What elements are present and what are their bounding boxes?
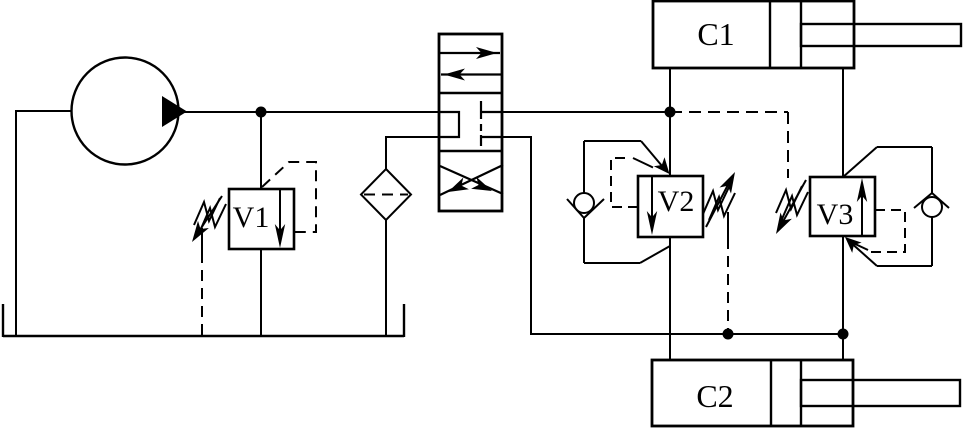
spring V3 (adjustable)	[776, 186, 802, 213]
svg-text:C2: C2	[696, 378, 733, 414]
pilot line V1 (dashed)	[262, 162, 316, 232]
svg-text:V2: V2	[658, 185, 695, 218]
DV1 centre position: blocked A/B ports	[480, 101, 482, 119]
wire DV1 port B to bottom rail	[502, 137, 843, 334]
wire C1 cap port to node A	[669, 68, 671, 112]
filter F1	[361, 169, 411, 220]
DV1 centre position: P-T bracket	[439, 112, 459, 137]
DV1 top position: flow arrow B-T	[441, 73, 502, 75]
counterbalance valve V2	[638, 176, 703, 237]
relief valve V1	[229, 189, 294, 249]
wire V1 outlet to tank	[260, 249, 262, 336]
bypass line around V3 (check path)	[843, 147, 877, 177]
node A (C1 cap line junction)	[665, 107, 676, 118]
wire pump discharge	[180, 111, 440, 113]
wire V3 to C2 rod port	[842, 236, 844, 360]
directional valve DV1 body	[439, 34, 502, 211]
wire V2 to C2 cap port	[669, 237, 671, 360]
pilot line V2 to bottom rail (dashed)	[727, 212, 729, 238]
tank T1	[3, 335, 404, 337]
svg-text:V3: V3	[817, 198, 854, 231]
node B on bottom rail (V2 pilot tap)	[723, 329, 734, 340]
svg-text:C1: C1	[697, 16, 734, 52]
wire filter to tank	[385, 220, 387, 336]
bypass line around V2 (check path)	[583, 141, 585, 193]
node C on bottom rail (C2 rod line)	[838, 329, 849, 340]
wire C1 rod port to V3	[842, 68, 844, 177]
pilot line to V3 (dashed)	[670, 111, 788, 113]
pilot sense line V2 (dashed loop)	[611, 158, 638, 207]
wire DV1 port A to node A	[502, 111, 670, 113]
wire V1 drain (dashed) to tank	[201, 228, 203, 252]
check valve CV3	[922, 197, 942, 217]
counterbalance valve V3	[810, 177, 875, 236]
wire pump suction to tank	[16, 111, 71, 336]
pump P1	[72, 58, 179, 165]
DV1 top position: flow arrow P-A	[439, 52, 500, 54]
spring V1 (adjustable)	[194, 198, 220, 225]
svg-text:V1: V1	[233, 201, 270, 234]
node pump outlet junction	[256, 107, 267, 118]
cylinder C2	[652, 360, 853, 426]
cylinder C1	[653, 1, 854, 68]
wire junction to V1	[260, 112, 262, 189]
spring V2 (adjustable)	[703, 187, 729, 214]
wire node A to V2	[669, 112, 671, 176]
pilot sense line V3 (dashed loop)	[871, 210, 905, 252]
DV1 bottom position: crossed arrows	[440, 166, 503, 194]
check valve CV2	[574, 193, 594, 213]
wire valve port T to filter	[386, 137, 440, 169]
